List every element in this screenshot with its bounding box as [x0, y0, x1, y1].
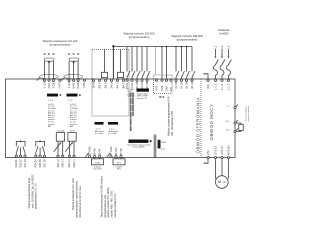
svg-text:(+): (+)	[227, 106, 230, 108]
svg-text:port: port	[161, 148, 165, 151]
svg-text:L2: L2	[221, 45, 224, 48]
svg-text:0-20mA: 0-20mA	[57, 130, 65, 133]
svg-text:5 / L3: 5 / L3	[227, 83, 230, 90]
svg-text:7 AI2-: 7 AI2-	[83, 82, 86, 89]
svg-text:11 DI4: 11 DI4	[141, 81, 144, 89]
svg-text:3 GND: 3 GND	[52, 81, 55, 89]
svg-text:6/T3 (W): 6/T3 (W)	[227, 145, 230, 155]
svg-text:GND (-): GND (-)	[73, 159, 76, 168]
svg-text:1 2 3: 1 2 3	[68, 100, 74, 102]
svg-text:R1B 22: R1B 22	[19, 159, 22, 168]
svg-text:AO2 (+): AO2 (+)	[68, 159, 71, 168]
svg-text:0(4)-20mA lub 0-10V DC max: 0(4)-20mA lub 0-10V DC max	[79, 185, 82, 217]
svg-text:(B-): (B-)	[226, 130, 230, 132]
svg-text:29 PB-: 29 PB-	[120, 148, 123, 156]
svg-text:(PE): (PE)	[207, 84, 210, 89]
svg-text:4 AI1-: 4 AI1-	[59, 82, 62, 89]
svg-text:19 48-: 19 48-	[98, 148, 101, 155]
svg-text:13 DI6: 13 DI6	[175, 81, 178, 89]
svg-text:2/T1 (U): 2/T1 (U)	[214, 146, 217, 155]
svg-text:AI4 V: AI4 V	[116, 82, 119, 88]
svg-text:1 / L1: 1 / L1	[214, 83, 217, 90]
svg-text:28 PB+: 28 PB+	[115, 147, 118, 156]
svg-text:COM: COM	[161, 86, 164, 92]
svg-text:27 GND: 27 GND	[110, 146, 113, 155]
svg-text:+24V: +24V	[155, 85, 158, 91]
svg-text:(programowane): (programowane)	[177, 38, 198, 42]
svg-text:RJ45: RJ45	[161, 142, 167, 144]
svg-text:rezystora hamow.: rezystora hamow.	[247, 105, 250, 121]
svg-text:120 Ohm: 120 Ohm	[93, 169, 102, 171]
svg-text:pr. / nap.: pr. / nap.	[109, 133, 118, 135]
svg-text:L3: L3	[227, 45, 230, 48]
svg-text:1 +10V: 1 +10V	[43, 80, 46, 88]
svg-text:M: M	[218, 180, 221, 184]
svg-text:1 2 3: 1 2 3	[96, 128, 102, 130]
svg-text:(programowane) R1, R2: (programowane) R1, R2	[35, 183, 38, 209]
svg-text:AI3 C: AI3 C	[104, 82, 107, 88]
svg-text:14 DI7: 14 DI7	[180, 81, 183, 89]
svg-text:24VDC: 24VDC	[110, 80, 113, 88]
svg-text:120R: 120R	[95, 163, 100, 165]
svg-text:karty RS485: karty RS485	[133, 146, 146, 149]
svg-text:1 +10V: 1 +10V	[68, 80, 71, 88]
svg-text:AO1 (+): AO1 (+)	[57, 159, 60, 168]
svg-text:GND (-): GND (-)	[62, 159, 65, 168]
svg-text:0-10V: 0-10V	[69, 131, 75, 133]
svg-text:12 DI5: 12 DI5	[146, 81, 149, 89]
svg-text:PTC: PTC	[117, 169, 122, 171]
svg-text:zworka J5: zworka J5	[137, 98, 147, 100]
svg-text:OBWÓD MOCY: OBWÓD MOCY	[209, 104, 214, 141]
svg-text:18 48+: 18 48+	[93, 147, 96, 155]
svg-text:R2A 24: R2A 24	[35, 159, 38, 168]
svg-text:2 AI1: 2 AI1	[48, 82, 51, 88]
svg-text:10 DI3: 10 DI3	[136, 81, 139, 89]
svg-text:AI3 V: AI3 V	[98, 82, 101, 88]
svg-text:10VDC: 10VDC	[92, 80, 95, 88]
svg-text:CME: CME	[165, 86, 168, 92]
svg-text:R1A 21: R1A 21	[15, 159, 18, 168]
svg-text:15 DI8: 15 DI8	[185, 81, 188, 89]
svg-text:24V: 24V	[170, 87, 173, 92]
svg-text:OBWÓD STEROWANIA: OBWÓD STEROWANIA	[195, 97, 200, 153]
svg-text:DI6 - DI8 standard PNP: DI6 - DI8 standard PNP	[171, 110, 174, 136]
svg-text:standard Modbus RTU: standard Modbus RTU	[114, 193, 117, 217]
svg-text:8 DI1: 8 DI1	[126, 82, 129, 88]
svg-text:R1C 23: R1C 23	[24, 159, 27, 168]
svg-text:R2C 26: R2C 26	[43, 159, 46, 168]
svg-text:pr. / nap.: pr. / nap.	[95, 133, 104, 135]
svg-text:1 2 3: 1 2 3	[109, 128, 115, 130]
svg-text:3x400V: 3x400V	[219, 32, 229, 36]
svg-text:(B+): (B+)	[226, 121, 230, 123]
svg-text:17 GND: 17 GND	[88, 146, 91, 155]
svg-text:(programowane): (programowane)	[129, 35, 150, 39]
svg-text:(PE): (PE)	[207, 150, 210, 155]
svg-text:4/T2 (V): 4/T2 (V)	[221, 146, 224, 155]
svg-text:16 +24: 16 +24	[191, 81, 194, 89]
svg-text:1 2 3: 1 2 3	[48, 100, 54, 102]
svg-text:3~: 3~	[223, 180, 227, 184]
svg-text:L1: L1	[214, 45, 217, 48]
svg-text:5 AI2: 5 AI2	[72, 82, 75, 88]
svg-text:R2B 25: R2B 25	[39, 159, 42, 168]
svg-text:3 / L2: 3 / L2	[221, 83, 224, 90]
svg-text:PTC: PTC	[117, 163, 122, 165]
svg-text:(programowane): (programowane)	[50, 43, 71, 47]
svg-text:9 DI2: 9 DI2	[131, 82, 134, 88]
svg-text:6 GND: 6 GND	[77, 81, 80, 89]
